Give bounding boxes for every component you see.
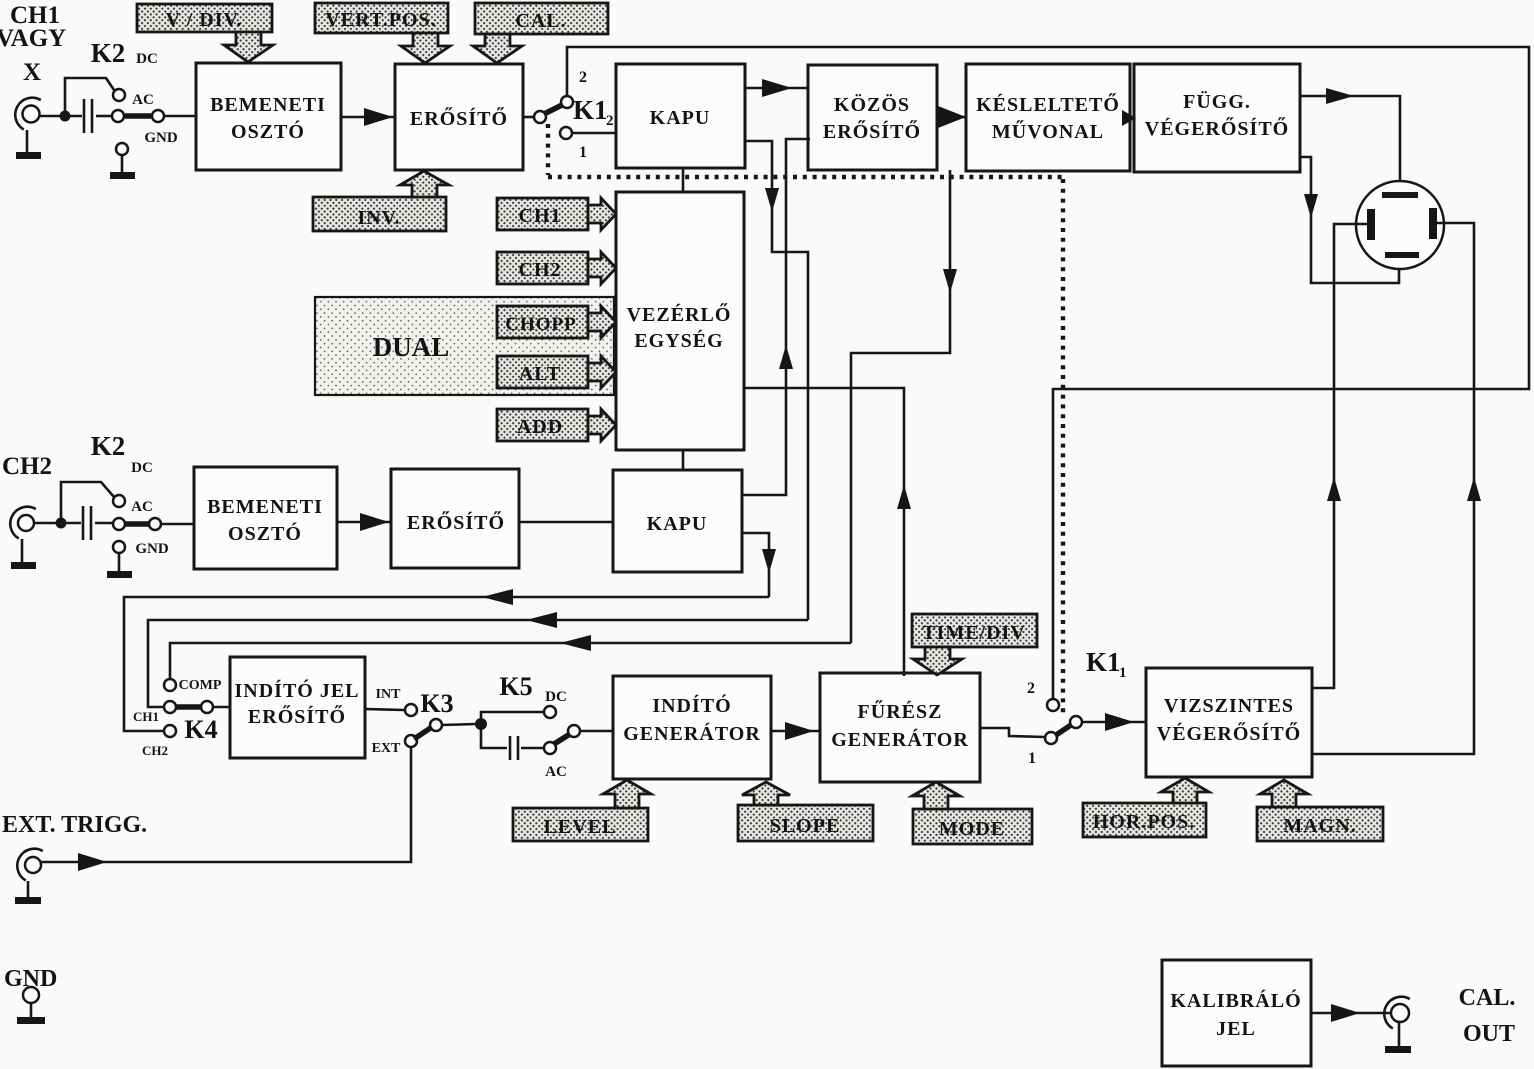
label CH2 bbox=[497, 252, 588, 284]
svg-text:CH2: CH2 bbox=[2, 453, 52, 480]
svg-text:OSZTÓ: OSZTÓ bbox=[228, 521, 302, 545]
wire VIZSZINTES output1 to CRT left plate bbox=[1312, 224, 1367, 688]
wire KAPU to KOZOS EROSITO bbox=[745, 87, 808, 90]
contact GND K2 CH2 bbox=[113, 541, 125, 571]
label ADD bbox=[497, 409, 588, 441]
svg-text:2: 2 bbox=[606, 113, 614, 129]
svg-text:VÉGERŐSÍTŐ: VÉGERŐSÍTŐ bbox=[1157, 721, 1301, 745]
arrowhead KALIBRALO output bbox=[1331, 1004, 1360, 1022]
svg-text:KÖZÖS: KÖZÖS bbox=[834, 93, 910, 116]
text VIZSZINTES VEGEROSITO bbox=[1157, 695, 1301, 745]
connector CH1 BNC bbox=[15, 98, 41, 130]
svg-text:INDÍTÓ: INDÍTÓ bbox=[652, 693, 731, 717]
wire DC branch CH2 bbox=[61, 482, 114, 523]
svg-text:K3: K3 bbox=[420, 689, 453, 718]
svg-text:VERT.POS.: VERT.POS. bbox=[325, 9, 436, 31]
switch K3 bbox=[405, 704, 442, 747]
svg-text:GND: GND bbox=[135, 541, 169, 557]
wire FURESZ to K1-1 bbox=[980, 728, 1045, 737]
node K5 junction bbox=[475, 718, 487, 730]
wire BEMENETI2 to EROSITO2 bbox=[337, 521, 391, 524]
block INDITO GENERATOR bbox=[613, 676, 771, 779]
svg-text:MŰVONAL: MŰVONAL bbox=[992, 119, 1104, 143]
control arrow SLOPE up bbox=[742, 782, 790, 805]
label CHOPP bbox=[497, 306, 588, 338]
wire K5 AC branch left bbox=[481, 724, 507, 748]
label ALT bbox=[497, 356, 588, 388]
svg-text:DC: DC bbox=[545, 689, 567, 705]
svg-text:AC: AC bbox=[132, 92, 154, 108]
svg-text:KALIBRÁLÓ: KALIBRÁLÓ bbox=[1170, 988, 1301, 1012]
label CAL. bbox=[475, 3, 608, 34]
svg-text:K2: K2 bbox=[91, 38, 126, 68]
connector GND terminal bbox=[23, 987, 39, 1017]
arrowhead right on EXT TRIGG line bbox=[78, 853, 107, 871]
svg-text:EGYSÉG: EGYSÉG bbox=[634, 329, 723, 352]
arrowhead KOZOS to KESLELTETO bbox=[938, 106, 966, 128]
arrowhead down on KAPU2 pickoff bbox=[762, 549, 776, 573]
arrowhead FUGG bottom output down bbox=[1304, 194, 1318, 218]
mechanical link K1 dotted bbox=[548, 124, 1063, 718]
mode arrow ALT right bbox=[588, 356, 616, 388]
arrowhead left on COMP trigger line bbox=[560, 635, 591, 651]
svg-text:CHOPP: CHOPP bbox=[505, 314, 577, 335]
capacitor K5 bbox=[510, 736, 518, 760]
svg-text:INT: INT bbox=[376, 687, 402, 702]
ground CAL OUT bbox=[1385, 1022, 1411, 1053]
wire K1-2 contact1 to KAPU bbox=[572, 132, 616, 135]
svg-text:MODE: MODE bbox=[939, 818, 1005, 840]
mode arrow CHOPP right bbox=[588, 306, 616, 338]
svg-text:K1: K1 bbox=[573, 95, 608, 125]
svg-text:VEZÉRLŐ: VEZÉRLŐ bbox=[627, 302, 732, 326]
text FURESZ GENERATOR bbox=[831, 699, 969, 751]
node CH2 junction bbox=[56, 518, 67, 529]
svg-text:EXT. TRIGG.: EXT. TRIGG. bbox=[2, 812, 147, 838]
svg-text:GENERÁTOR: GENERÁTOR bbox=[623, 722, 761, 745]
arrowhead into VIZSZINTES bbox=[1105, 713, 1134, 731]
ground K2 CH1 bbox=[110, 172, 135, 179]
arrowhead up on KAPU2 to KOZOS bbox=[779, 345, 793, 369]
control arrow MODE up bbox=[912, 782, 960, 809]
svg-text:GND: GND bbox=[4, 966, 57, 992]
wire KAPU1 trigger pickoff down to CH1 trigger line bbox=[745, 141, 808, 620]
wire KAPU1 to VEZERLO bbox=[682, 168, 685, 192]
label VERT.POS. bbox=[315, 3, 448, 33]
arrowhead INDITO to FURESZ bbox=[785, 722, 814, 740]
mode arrow CH1 right bbox=[588, 198, 616, 230]
svg-text:INDÍTÓ JEL: INDÍTÓ JEL bbox=[234, 678, 359, 702]
control arrow LEVEL up bbox=[603, 780, 651, 808]
arrowhead FUGG top output bbox=[1326, 88, 1354, 104]
control arrow HOR.POS up bbox=[1161, 778, 1209, 803]
label INV. bbox=[313, 197, 446, 231]
wire INDITO JEL EROSITO to INT bbox=[365, 709, 405, 710]
label K1-1 bbox=[1086, 647, 1127, 681]
text KESLELTETO MUVONAL bbox=[976, 92, 1120, 143]
svg-text:ADD: ADD bbox=[517, 416, 563, 438]
ground GND terminal bbox=[17, 1017, 45, 1024]
wire trigger line COMP (y643) bbox=[170, 643, 851, 679]
ground CH2 BNC bbox=[11, 539, 36, 569]
block BEMENETI OSZTO CH2 bbox=[194, 467, 337, 569]
contact GND K2 CH1 bbox=[116, 143, 128, 172]
wire K1-1 to VIZSZINTES bbox=[1082, 721, 1146, 724]
svg-text:GND: GND bbox=[144, 130, 178, 146]
text KALIBRALO JEL bbox=[1170, 988, 1301, 1040]
control arrow TIME/DIV down bbox=[913, 647, 962, 675]
label MAGN. bbox=[1257, 807, 1383, 841]
wire K4 to INDITO JEL EROSITO bbox=[213, 706, 230, 709]
label SLOPE bbox=[738, 805, 873, 841]
svg-text:MAGN.: MAGN. bbox=[1283, 815, 1356, 837]
block FURESZ GENERATOR bbox=[820, 673, 980, 782]
node CH1 junction bbox=[60, 111, 71, 122]
svg-text:CAL.: CAL. bbox=[515, 10, 566, 32]
wire K2 to BEMENETI OSZTO CH2 bbox=[161, 523, 194, 526]
svg-text:SLOPE: SLOPE bbox=[770, 815, 841, 837]
block FUGG. VEGEROSITO bbox=[1134, 64, 1300, 172]
svg-text:CH1: CH1 bbox=[519, 205, 562, 227]
svg-text:CH1: CH1 bbox=[133, 709, 159, 724]
svg-text:KÉSLELTETŐ: KÉSLELTETŐ bbox=[976, 92, 1120, 116]
wire KALIBRALO JEL output bbox=[1311, 1012, 1390, 1015]
svg-text:VAGY: VAGY bbox=[0, 25, 66, 52]
svg-text:DC: DC bbox=[131, 460, 153, 476]
svg-text:ERŐSÍTŐ: ERŐSÍTŐ bbox=[407, 510, 505, 534]
svg-text:GENERÁTOR: GENERÁTOR bbox=[831, 728, 969, 751]
wire capacitor to AC contact CH2 bbox=[95, 522, 113, 525]
svg-text:1: 1 bbox=[1028, 750, 1036, 767]
control arrow MAGN up bbox=[1260, 780, 1308, 807]
wire FURESZ feedback to VEZERLO bbox=[744, 388, 904, 676]
text FUGG. VEGEROSITO bbox=[1145, 90, 1289, 140]
block KALIBRALO JEL bbox=[1162, 960, 1311, 1066]
svg-text:K5: K5 bbox=[499, 672, 532, 701]
block VEZERLO EGYSEG bbox=[616, 192, 744, 450]
svg-text:KAPU: KAPU bbox=[650, 107, 711, 129]
svg-text:FÜGG.: FÜGG. bbox=[1183, 90, 1251, 113]
svg-text:TIME/DIV: TIME/DIV bbox=[922, 622, 1026, 644]
text CAL. OUT bbox=[1459, 985, 1516, 1047]
block BEMENETI OSZTO CH1 bbox=[196, 63, 341, 170]
text BEMENETI OSZTO CH2 bbox=[207, 496, 323, 545]
label TIME/DIV bbox=[912, 614, 1037, 647]
wire KOZOS bottom pickoff to COMP trigger line bbox=[851, 170, 950, 643]
label DUAL bbox=[315, 297, 614, 395]
svg-text:ERŐSÍTŐ: ERŐSÍTŐ bbox=[248, 704, 346, 728]
svg-text:CH2: CH2 bbox=[142, 743, 168, 758]
connector EXT TRIGG BNC bbox=[17, 849, 43, 881]
block KOZOS EROSITO bbox=[808, 65, 937, 170]
svg-text:ERŐSÍTŐ: ERŐSÍTŐ bbox=[410, 106, 508, 130]
svg-text:OSZTÓ: OSZTÓ bbox=[231, 119, 305, 143]
wire FUGG bottom output to CRT bottom plate bbox=[1300, 157, 1399, 283]
svg-text:COMP: COMP bbox=[179, 678, 222, 693]
wire CH2 input bbox=[34, 522, 81, 525]
svg-text:EXT: EXT bbox=[372, 741, 401, 756]
arrowhead KAPU to KOZOS bbox=[762, 79, 792, 97]
wire X path: K1-2 contact2 top line to right edge down to K1-1 contact2 bbox=[567, 47, 1529, 699]
arrowhead into EROSITO2 bbox=[360, 513, 389, 531]
label V/DIV. bbox=[137, 4, 272, 32]
switch K2 CH2 bbox=[113, 495, 161, 530]
svg-text:CH2: CH2 bbox=[519, 259, 562, 281]
svg-text:INV.: INV. bbox=[357, 207, 400, 229]
connector CAL OUT bbox=[1384, 997, 1410, 1029]
svg-text:AC: AC bbox=[131, 499, 153, 515]
svg-text:BEMENETI: BEMENETI bbox=[207, 496, 323, 518]
svg-text:1: 1 bbox=[1119, 665, 1127, 681]
svg-text:V / DIV.: V / DIV. bbox=[166, 9, 243, 31]
CRT right plate bbox=[1429, 208, 1437, 239]
text INDITO GENERATOR bbox=[623, 693, 761, 745]
arrowhead left on CH2 trigger line bbox=[482, 589, 513, 605]
switch K2 CH1 bbox=[112, 89, 164, 122]
wire K5 DC branch bbox=[481, 712, 544, 724]
wire trigger line CH1 (y620) bbox=[148, 620, 808, 707]
svg-text:LEVEL: LEVEL bbox=[544, 816, 617, 838]
arrowhead into EROSITO CH1 bbox=[364, 108, 393, 126]
wire INDITO GENERATOR to FURESZ GENERATOR bbox=[771, 730, 820, 733]
label CH1 bbox=[497, 198, 588, 230]
svg-text:DC: DC bbox=[136, 51, 158, 67]
svg-text:CAL.: CAL. bbox=[1459, 985, 1516, 1011]
wire KOZOS to KESLELTETO bbox=[937, 116, 966, 119]
svg-text:K4: K4 bbox=[184, 715, 217, 744]
wire DC branch CH1 bbox=[65, 78, 114, 116]
CRT left plate bbox=[1367, 209, 1375, 240]
text VEZERLO EGYSEG bbox=[627, 302, 732, 352]
svg-text:OUT: OUT bbox=[1463, 1021, 1515, 1047]
block INDITO JEL EROSITO bbox=[230, 657, 365, 758]
ground EXT TRIGG bbox=[15, 881, 41, 904]
svg-text:K2: K2 bbox=[91, 431, 126, 461]
wire BEMENETI to EROSITO CH1 bbox=[341, 116, 395, 119]
label HOR.POS. bbox=[1083, 803, 1206, 837]
svg-text:AC: AC bbox=[545, 764, 567, 780]
wire K2 to BEMENETI OSZTO CH1 bbox=[164, 115, 196, 118]
switch K1-1 bbox=[1045, 699, 1082, 744]
arrowhead down on KOZOS pickoff bbox=[943, 269, 957, 293]
wire K5 capacitor to AC contact bbox=[521, 747, 544, 750]
wire VEZERLO to KAPU2 bbox=[682, 450, 685, 470]
wire FUGG top output to CRT top plate bbox=[1300, 96, 1400, 192]
wire VIZSZINTES output2 to CRT right plate bbox=[1312, 223, 1474, 754]
svg-text:DUAL: DUAL bbox=[373, 332, 450, 362]
svg-text:1: 1 bbox=[579, 144, 587, 161]
arrowhead up on FURESZ feedback bbox=[897, 485, 911, 509]
block EROSITO CH1 bbox=[395, 64, 523, 170]
text BEMENETI OSZTO CH1 bbox=[210, 94, 326, 143]
svg-text:KAPU: KAPU bbox=[647, 513, 708, 535]
block EROSITO CH2 bbox=[391, 469, 519, 568]
text INDITO JEL EROSITO bbox=[234, 678, 359, 728]
wire EROSITO2 to KAPU2 bbox=[519, 521, 613, 524]
ground CH1 BNC bbox=[16, 130, 41, 159]
mode arrow CH2 right bbox=[588, 252, 616, 284]
control arrow INV up bbox=[400, 171, 449, 197]
block KAPU CH2 bbox=[613, 470, 742, 572]
switch K1-2 bbox=[534, 96, 573, 139]
control arrow V/DIV down bbox=[224, 32, 273, 62]
svg-text:ERŐSÍTŐ: ERŐSÍTŐ bbox=[823, 119, 921, 143]
control arrow VERT.POS down bbox=[401, 33, 450, 63]
svg-text:HOR.POS.: HOR.POS. bbox=[1093, 811, 1195, 833]
svg-text:2: 2 bbox=[579, 69, 587, 86]
CRT top plate bbox=[1382, 192, 1418, 198]
svg-text:K1: K1 bbox=[1086, 647, 1121, 677]
svg-text:2: 2 bbox=[1027, 680, 1035, 697]
label K1-2 bbox=[573, 95, 614, 129]
wire EROSITO CH1 to K1-2 bbox=[523, 116, 535, 119]
svg-text:ALT: ALT bbox=[519, 363, 561, 385]
switch K4 contacts bbox=[164, 679, 213, 737]
node label CH1 VAGY X bbox=[0, 2, 66, 86]
wire EXT contact down to EXT TRIGG line bbox=[41, 747, 411, 862]
capacitor CH1 input bbox=[84, 99, 92, 133]
svg-text:VIZSZINTES: VIZSZINTES bbox=[1164, 695, 1294, 717]
block KESLELTETO MUVONAL bbox=[966, 64, 1130, 171]
arrowhead up on left plate wire bbox=[1327, 477, 1341, 501]
block KAPU CH1 bbox=[616, 64, 745, 168]
svg-text:VÉGERŐSÍTŐ: VÉGERŐSÍTŐ bbox=[1145, 116, 1289, 140]
wire trigger line CH2 (y597) bbox=[124, 597, 769, 731]
connector CH2 BNC bbox=[10, 507, 36, 539]
ground K2 CH2 bbox=[107, 571, 132, 578]
svg-text:FŰRÉSZ: FŰRÉSZ bbox=[858, 699, 943, 723]
arrowhead left on CH1 trigger line bbox=[526, 612, 557, 628]
label LEVEL bbox=[513, 808, 648, 841]
block VIZSZINTES VEGEROSITO bbox=[1146, 668, 1312, 777]
arrowhead KESLELTETO to FUGG bbox=[1122, 110, 1136, 126]
mode arrow ADD right bbox=[588, 409, 616, 441]
label MODE bbox=[913, 809, 1032, 844]
wire KAPU2 up to KOZOS EROSITO bbox=[742, 139, 810, 495]
switch K5 bbox=[544, 706, 580, 754]
wire K5 to INDITO GENERATOR bbox=[580, 730, 613, 733]
arrowhead up on right plate wire bbox=[1467, 477, 1481, 501]
wire CH1 input bbox=[39, 115, 82, 118]
text KOZOS EROSITO bbox=[823, 93, 921, 143]
wire K3 to K5 junction bbox=[442, 724, 476, 725]
svg-text:JEL: JEL bbox=[1216, 1018, 1256, 1040]
control arrow CAL down bbox=[473, 34, 522, 63]
CRT tube bbox=[1356, 181, 1444, 269]
svg-text:BEMENETI: BEMENETI bbox=[210, 94, 326, 116]
capacitor CH2 input bbox=[83, 506, 91, 540]
wire capacitor to AC contact bbox=[96, 115, 112, 118]
wire KAPU2 pickoff down bbox=[742, 533, 769, 597]
arrowhead down on KAPU1 pickoff bbox=[765, 188, 779, 212]
svg-text:X: X bbox=[23, 59, 41, 86]
CRT bottom plate bbox=[1385, 252, 1419, 258]
